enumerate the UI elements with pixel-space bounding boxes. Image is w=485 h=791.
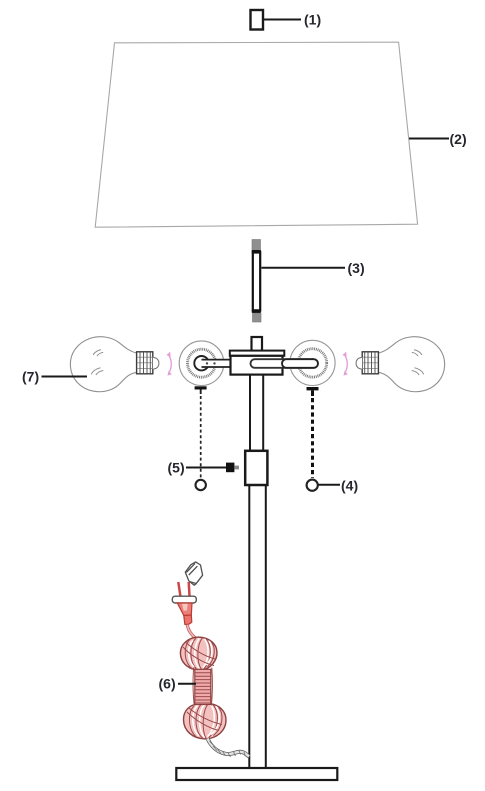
svg-text:(6): (6) (159, 676, 176, 692)
svg-text:(2): (2) (450, 131, 467, 147)
svg-text:(3): (3) (348, 260, 365, 276)
svg-text:(4): (4) (341, 478, 358, 494)
svg-text:(7): (7) (22, 369, 39, 385)
svg-text:(5): (5) (168, 460, 185, 476)
svg-text:(1): (1) (304, 12, 321, 28)
